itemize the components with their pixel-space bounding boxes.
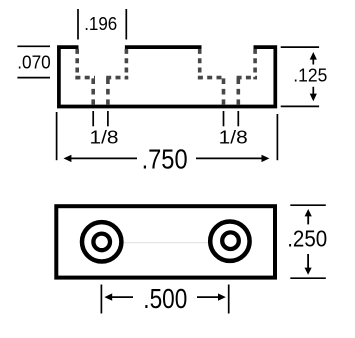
svg-text:.125: .125 — [293, 65, 327, 85]
svg-text:1/8: 1/8 — [219, 128, 248, 148]
svg-text:.070: .070 — [17, 53, 51, 73]
svg-text:.750: .750 — [142, 143, 188, 174]
svg-text:.196: .196 — [84, 14, 117, 34]
svg-text:1/8: 1/8 — [90, 128, 119, 148]
svg-text:.500: .500 — [143, 283, 187, 314]
svg-text:.250: .250 — [287, 225, 327, 251]
